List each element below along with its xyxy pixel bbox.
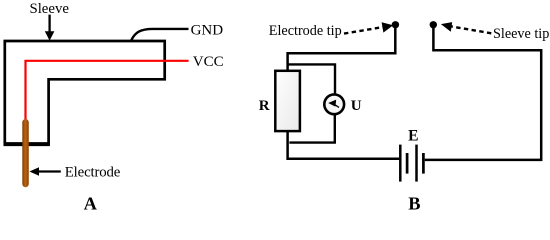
svg-text:E: E <box>408 128 418 145</box>
voltmeter needle <box>328 100 339 108</box>
VCC wire (red) <box>26 61 189 121</box>
svg-text:Electrode tip: Electrode tip <box>269 23 342 39</box>
GND lead wire <box>131 29 188 40</box>
resistor R <box>275 71 300 131</box>
svg-text:U: U <box>351 98 362 114</box>
svg-text:Sleeve: Sleeve <box>29 1 69 17</box>
svg-text:VCC: VCC <box>193 54 224 70</box>
battery E plate 3 (long) <box>415 145 418 182</box>
sleeve bottom edge (thick) <box>4 142 50 146</box>
electrode-tip dashed pointer <box>344 22 393 33</box>
sleeve-tip dashed pointer <box>441 22 492 33</box>
wire: left bottom (R down, right to battery) <box>288 131 400 159</box>
electrode pointer arrow <box>29 167 60 176</box>
battery E plate 4 (short) <box>422 153 425 174</box>
battery E plate 1 (long) <box>399 145 402 182</box>
wire: voltmeter top branch <box>287 64 335 93</box>
svg-text:B: B <box>408 194 420 214</box>
svg-text:Sleeve tip: Sleeve tip <box>493 26 549 42</box>
wire: right loop (battery right, up to dot) <box>425 26 542 160</box>
svg-text:GND: GND <box>191 22 224 38</box>
wire: left top (dot down, left, down to R) <box>288 26 396 71</box>
node: electrode tip terminal <box>392 21 399 28</box>
electrode rod <box>22 119 29 187</box>
wire: voltmeter bottom branch <box>289 114 334 143</box>
svg-text:Electrode: Electrode <box>65 165 121 181</box>
svg-text:R: R <box>259 98 270 114</box>
voltmeter U <box>324 94 344 114</box>
sleeve body outline (L-shaped tube) <box>5 41 165 144</box>
svg-text:A: A <box>84 194 98 214</box>
node: sleeve tip terminal <box>430 21 437 28</box>
battery E plate 2 (short) <box>406 153 409 174</box>
sleeve pointer arrow <box>45 15 55 41</box>
